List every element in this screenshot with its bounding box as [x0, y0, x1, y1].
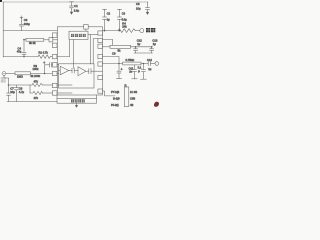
svg-text:1μ: 1μ: [148, 67, 151, 71]
wire mic return / ground row: [4, 75, 9, 85]
inner amplifier box: [59, 64, 95, 88]
wire mic row (y=56.3): [3, 56, 38, 58]
wire R7 right: [141, 63, 148, 65]
wire R1 to IC: [50, 56, 52, 58]
svg-text:1n: 1n: [129, 70, 132, 74]
wire feedback row: [24, 39, 26, 41]
svg-text:C9B: C9B: [130, 96, 135, 100]
label box below IC: [57, 98, 97, 103]
capacitor C6 (on supply bus, x=21.5): [19, 16, 23, 31]
svg-text:3.3μ: 3.3μ: [74, 9, 80, 13]
pin L2: [52, 63, 57, 67]
svg-text:24k: 24k: [122, 25, 127, 29]
wire R5 to pin box: [44, 39, 49, 41]
svg-text:4B: 4B: [130, 103, 133, 107]
capacitor C3 branch (x=119.5 above bus): [118, 9, 122, 31]
svg-text:C6: C6: [24, 18, 28, 22]
svg-text:47μ: 47μ: [17, 50, 22, 54]
pin box right bottom: [98, 89, 103, 93]
junction node: [135, 46, 137, 48]
wire P2 to R6 top: [103, 40, 113, 46]
terminal output circle: [155, 62, 159, 66]
wire internal V1: [89, 35, 91, 64]
IC U1 outer box: [57, 27, 102, 95]
wire block to pin P1: [88, 34, 98, 36]
wire A2 out: [86, 70, 89, 72]
capacitor C2 branch (x=104.5 above bus): [103, 9, 107, 31]
pin P3: [98, 44, 103, 48]
svg-text:C9: C9: [112, 52, 116, 56]
svg-text:3k 100k: 3k 100k: [31, 74, 41, 78]
wire to right edge: [91, 70, 103, 72]
wire branch down: [29, 85, 31, 93]
label battery: [146, 28, 150, 32]
capacitor C10 branch to ground: [132, 65, 137, 79]
junction node: [44, 73, 46, 75]
wire stub L3: [57, 73, 59, 75]
wire A1 in: [59, 70, 61, 72]
capacitor C8 (to ground bus): [15, 85, 19, 102]
wire to external bottom right: [103, 91, 116, 96]
svg-text:+: +: [121, 68, 123, 72]
wire to output terminal: [150, 63, 155, 65]
svg-text:3k 3k: 3k 3k: [29, 41, 36, 45]
resistor R7 box: [123, 62, 141, 65]
wire R6 right: [131, 46, 153, 48]
svg-text:1μ: 1μ: [153, 42, 156, 46]
pin P5: [98, 62, 103, 66]
wire internal V2: [93, 39, 98, 64]
capacitor C12: [134, 47, 138, 53]
svg-text:C8: C8: [19, 86, 23, 90]
battery terminal circle: [140, 29, 144, 33]
svg-text:47k: 47k: [34, 96, 39, 100]
resistor R4 (zigzag on supply bus): [118, 29, 135, 33]
svg-text:C14: C14: [147, 58, 152, 62]
node feedback junction: [23, 39, 25, 41]
svg-text:10μ: 10μ: [10, 90, 15, 94]
connector block: [124, 87, 129, 107]
wire ground segment right: [134, 52, 153, 54]
capacitor C1 (top, x=71.5, to ground arrow): [70, 2, 74, 14]
svg-text:+: +: [43, 61, 45, 65]
wire stub L2: [57, 64, 59, 66]
wire P4 down to audio line: [103, 57, 120, 64]
svg-text:0.75kΩ: 0.75kΩ: [126, 58, 135, 62]
wire block bottom left to input: [57, 40, 69, 57]
terminal input circle: [2, 72, 6, 76]
wire to pin L5: [43, 92, 53, 94]
pin box LB1: [52, 33, 57, 37]
svg-text:PY-1(8: PY-1(8: [111, 90, 120, 94]
svg-text:100μ: 100μ: [24, 22, 30, 26]
label input: [1, 77, 3, 79]
svg-text:C5: C5: [136, 2, 140, 6]
pin P6: [98, 75, 103, 79]
capacitor (interstage): [71, 68, 73, 73]
wire left bus: [2, 2, 4, 57]
wire to A2: [74, 70, 78, 72]
wire P5 to volume resistor: [103, 63, 123, 65]
node on mic row: [23, 56, 25, 58]
svg-text:PJ-2(1: PJ-2(1: [111, 103, 119, 107]
block basic-circuit: [69, 31, 88, 39]
svg-text:4.7μ: 4.7μ: [19, 90, 25, 94]
svg-text:10μ: 10μ: [136, 6, 141, 10]
resistor R6 box: [110, 45, 131, 48]
wire power pin to basic block: [85, 29, 87, 31]
wire block bottom to amp chain: [73, 40, 75, 69]
capacitor C7 (to ground bus): [7, 85, 11, 102]
svg-text:C7: C7: [10, 86, 14, 90]
pin L5: [52, 91, 57, 95]
resistor R8 (zigzag row4): [32, 83, 43, 86]
wire lower row (y=85): [9, 84, 33, 86]
pin P2: [98, 38, 103, 42]
wire top bus: [3, 1, 148, 3]
pin L4: [52, 83, 57, 87]
capacitor (output): [88, 69, 90, 74]
svg-text:1C 92: 1C 92: [130, 90, 138, 94]
wire A1 out: [69, 70, 72, 72]
wire stub below label box: [76, 103, 78, 105]
wire stubs label box to IC: [56, 95, 58, 98]
capacitor C9a branch to ground: [116, 64, 121, 79]
wire to battery: [135, 30, 140, 32]
wire P3 to R6: [103, 46, 111, 48]
svg-text:100k: 100k: [33, 67, 39, 71]
capacitor C13: [150, 47, 154, 53]
resistor R2 box: [15, 72, 31, 75]
wire R2 to pin L3: [31, 73, 53, 75]
wire supply bus: [3, 30, 57, 32]
junction node: [143, 63, 145, 65]
svg-text:R1 4.7k: R1 4.7k: [39, 50, 49, 54]
capacitor C4 branch: [22, 40, 26, 57]
svg-text:R: R: [125, 83, 127, 87]
svg-text:1μ: 1μ: [137, 42, 140, 46]
pin box L0: [49, 38, 53, 42]
wire pin L0 to IC: [53, 39, 58, 41]
capacitor C15 branch to ground: [141, 64, 147, 80]
wires into amp box: [58, 84, 72, 86]
op-amp A2: [78, 67, 86, 76]
resistor R1 zigzag: [38, 55, 50, 59]
corner mark: [0, 0, 2, 2]
wire branch up to C4: [44, 65, 46, 74]
svg-text:47k: 47k: [34, 80, 39, 84]
capacitor C5 (top right, x=147.5, to ground arrow): [146, 2, 150, 14]
logo mark bottom right: [154, 102, 159, 107]
wire ground bus bottom left: [7, 101, 57, 103]
wire to pin L4: [43, 84, 53, 86]
pin box top (power pin): [84, 25, 89, 30]
op-amp A1: [60, 66, 69, 75]
resistor R5 box: [26, 38, 44, 41]
svg-text:1MΩ: 1MΩ: [17, 75, 23, 79]
pin L3: [52, 71, 57, 75]
resistor R9 (zigzag row5): [30, 91, 43, 94]
svg-text:C1: C1: [74, 4, 78, 8]
pin P1: [98, 31, 103, 35]
svg-text:S-1(9: S-1(9: [113, 96, 120, 100]
svg-text:5.6μ: 5.6μ: [122, 18, 127, 21]
wire terminal to R2: [6, 73, 15, 75]
pin box LB2: [52, 43, 57, 47]
capacitor C14 (series): [147, 61, 149, 65]
pin P4: [98, 54, 103, 58]
